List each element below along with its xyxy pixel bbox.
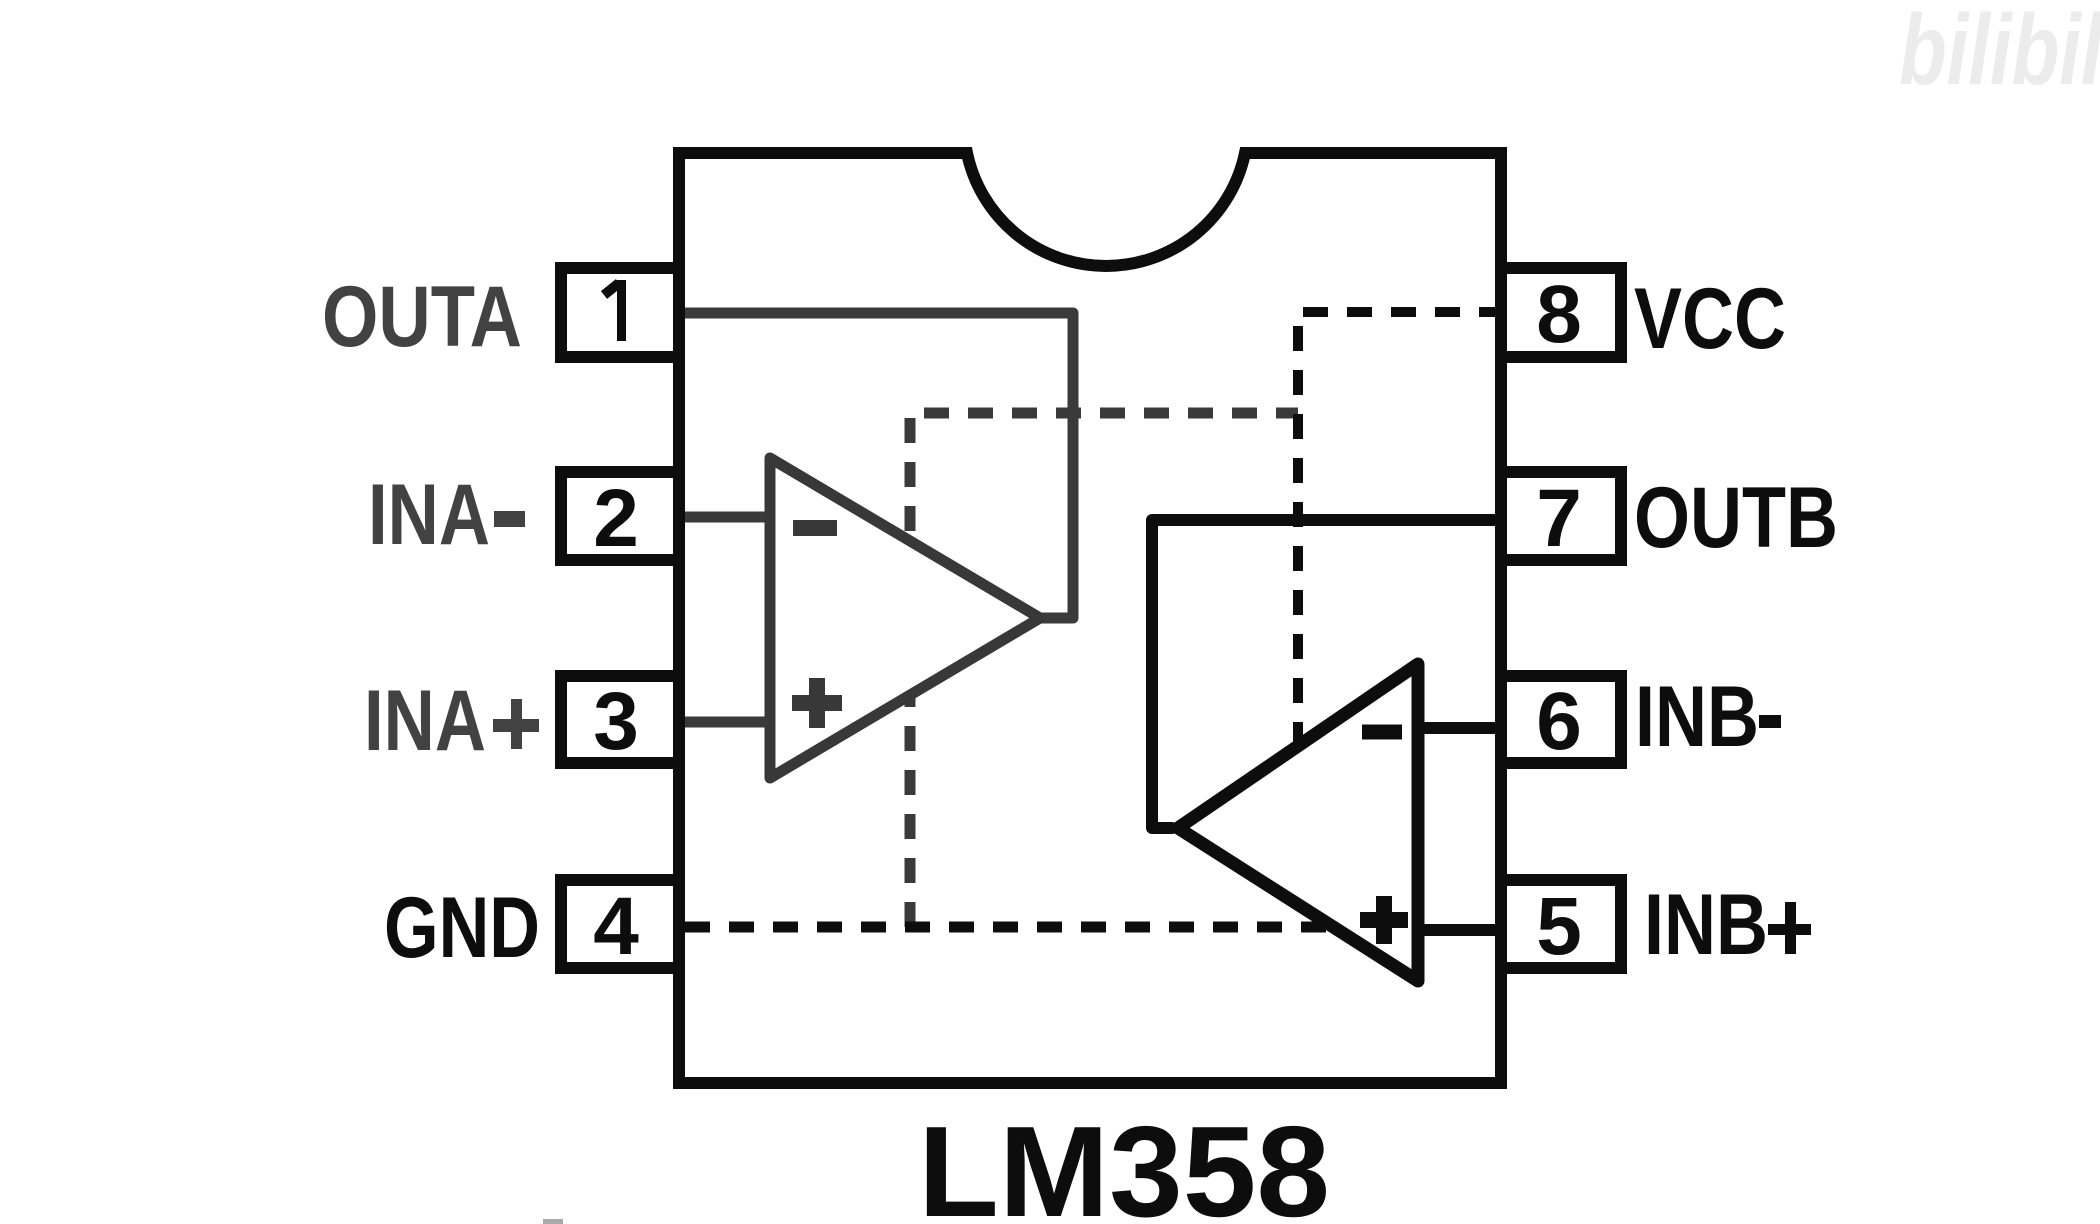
svg-text:GND: GND bbox=[384, 880, 540, 976]
wire dashed VCC net black (pin 8 to U1B) bbox=[1298, 312, 1497, 747]
svg-text:INB: INB bbox=[1644, 877, 1768, 973]
svg-text:8: 8 bbox=[1536, 269, 1582, 360]
pin 4 box bbox=[561, 880, 679, 968]
op-amp U1A plus sign bbox=[792, 678, 842, 728]
svg-text:LM358: LM358 bbox=[918, 1100, 1330, 1224]
IC body DIP-8 outline with notch bbox=[679, 153, 1501, 1083]
svg-text:7: 7 bbox=[1536, 473, 1582, 564]
svg-text:6: 6 bbox=[1536, 676, 1582, 767]
svg-text:INA: INA bbox=[364, 673, 486, 769]
pin 6 box bbox=[1501, 676, 1621, 763]
svg-text:2: 2 bbox=[593, 473, 639, 564]
wire dashed VCC net gray (U1A supply) bbox=[910, 413, 1298, 927]
wire op-amp A output to pin 1 bbox=[683, 313, 1073, 618]
svg-text:VCC: VCC bbox=[1634, 271, 1786, 367]
svg-text:3: 3 bbox=[593, 676, 639, 767]
wire pin 3 to op-amp A non-inverting input bbox=[683, 717, 772, 728]
op-amp U1A triangle bbox=[770, 458, 1040, 778]
svg-text:5: 5 bbox=[1536, 881, 1582, 972]
pin 5 box bbox=[1501, 880, 1621, 968]
pin 7 box bbox=[1501, 472, 1621, 560]
svg-text:4: 4 bbox=[593, 881, 639, 972]
pin 1 number bbox=[617, 280, 626, 341]
wire dashed GND net (pin 4 to U1B) bbox=[685, 922, 1333, 933]
pin 2 box bbox=[561, 472, 679, 560]
pin 8 box bbox=[1501, 268, 1621, 357]
svg-text:INB: INB bbox=[1635, 669, 1759, 765]
pin 1 box bbox=[561, 268, 679, 357]
wire pin 2 to op-amp A inverting input bbox=[683, 512, 772, 523]
op-amp U1A minus sign bbox=[793, 520, 837, 536]
wire pin 6 to op-amp B inverting input bbox=[1418, 722, 1503, 734]
wire op-amp B output to pin 7 bbox=[1152, 520, 1503, 828]
op-amp U1B triangle bbox=[1178, 664, 1418, 981]
op-amp U1B plus sign bbox=[1360, 896, 1408, 944]
svg-text:OUTA: OUTA bbox=[322, 269, 522, 365]
wire pin 5 to op-amp B non-inverting input bbox=[1418, 924, 1503, 936]
svg-text:INA: INA bbox=[368, 467, 490, 563]
svg-text:OUTB: OUTB bbox=[1634, 470, 1838, 566]
op-amp U1B minus sign bbox=[1362, 725, 1402, 740]
bottom edge artifact bbox=[543, 1219, 563, 1224]
svg-text:bilibili: bilibili bbox=[1899, 0, 2100, 106]
pin 3 box bbox=[561, 676, 679, 763]
